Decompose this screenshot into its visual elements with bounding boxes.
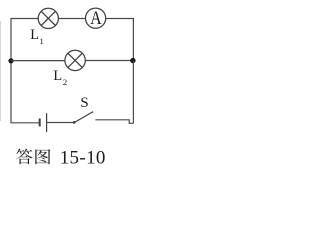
caption char 图 (35, 149, 50, 164)
left rail wire (10, 18, 12, 123)
svg-text:1: 1 (40, 36, 44, 46)
caption char 答 (16, 149, 32, 165)
svg-text:15-10: 15-10 (60, 148, 106, 169)
node left junction (8, 58, 13, 63)
scan edge artifact (left border) (0, 21, 2, 121)
node right junction (130, 58, 135, 63)
svg-text:A: A (90, 8, 102, 28)
wire middle-left segment (11, 60, 65, 62)
svg-text:S: S (80, 94, 88, 111)
switch S (73, 112, 93, 124)
wire switch to right corner with step (95, 120, 133, 124)
wire middle-right segment (85, 60, 133, 62)
svg-text:2: 2 (63, 77, 67, 87)
wire top-left segment (11, 18, 38, 20)
right rail lower wire (132, 61, 134, 124)
wire bottom-left segment (11, 122, 39, 124)
battery BT1 (40, 113, 47, 132)
lamp L1 (38, 8, 58, 28)
svg-text:L: L (53, 68, 62, 84)
wire battery to switch (47, 122, 74, 124)
lamp L2 (65, 50, 85, 70)
svg-text:L: L (30, 27, 39, 43)
wire L1 to A (58, 18, 85, 20)
wire A to top-right corner and right rail upper (106, 19, 134, 61)
ammeter U1 A (86, 8, 106, 28)
